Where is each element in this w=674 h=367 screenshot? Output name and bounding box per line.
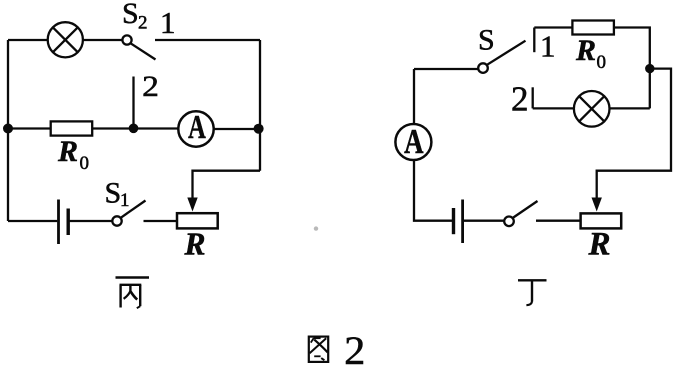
wire: right vertical of circuit 丙	[259, 40, 261, 171]
wire: junction to outer right vertical and down to rheostat arrow	[597, 69, 671, 200]
lamp (bulb) of circuit 丁	[574, 91, 610, 127]
switch S2 pivot	[122, 35, 131, 44]
wire: middle wire left part	[8, 127, 51, 129]
svg-text:2: 2	[511, 80, 529, 119]
wire: battery to switch S1	[70, 220, 113, 222]
svg-text:R: R	[588, 227, 611, 263]
switch of circuit 丁 pivot	[504, 217, 514, 227]
svg-text:S: S	[478, 24, 495, 57]
caption 图 (drawn strokes)	[309, 337, 328, 362]
wire: resistor to ammeter	[92, 127, 178, 129]
svg-text:R: R	[575, 34, 596, 67]
wire: lamp to switch S2 pivot	[83, 39, 123, 41]
wire: contact 1 of S2	[155, 39, 260, 41]
svg-text:A: A	[404, 122, 424, 161]
arrowhead of rheostat 丙	[187, 198, 197, 212]
battery of circuit 丁: short plate	[452, 208, 455, 234]
switch of circuit 丁 blade	[513, 201, 538, 218]
wire: ammeter to right vertical	[214, 128, 260, 130]
node: right junction dot circuit 丙	[254, 124, 264, 134]
svg-text:1: 1	[540, 29, 556, 64]
speck artifact	[314, 226, 318, 230]
wire: contact 2 branch of S2	[132, 77, 134, 129]
arrowhead of rheostat 丁	[592, 198, 602, 212]
wire: step down to rheostat arrow	[193, 171, 261, 200]
wire: contact 2 tick	[532, 87, 534, 108]
battery of circuit 丙: long plate	[57, 200, 60, 245]
wire: resistor R0 to right vertical	[614, 28, 650, 109]
svg-text:2: 2	[142, 70, 159, 103]
label 丁 (caption of right circuit), drawn strokes	[518, 280, 547, 305]
battery of circuit 丙: short plate	[66, 209, 69, 236]
wire: lamp to right vertical	[610, 107, 650, 109]
svg-text:1: 1	[120, 190, 130, 211]
svg-text:R: R	[57, 135, 78, 168]
wire: contact 2 to lamp	[533, 107, 574, 109]
wire: contact 1 to resistor R0	[534, 26, 572, 28]
svg-text:R: R	[184, 227, 206, 262]
svg-text:A: A	[188, 109, 206, 146]
rheostat R of circuit 丙	[177, 213, 218, 228]
battery of circuit 丁: long plate	[461, 200, 464, 244]
node: left junction dot	[3, 124, 13, 134]
node: junction dot circuit 丁	[645, 64, 654, 73]
svg-text:0: 0	[597, 52, 607, 73]
node: branch-2 junction dot	[129, 124, 139, 134]
wire: battery to switch pivot	[464, 220, 504, 222]
resistor R0 of circuit 丁	[572, 21, 614, 35]
svg-text:2: 2	[344, 328, 365, 367]
svg-text:S: S	[122, 0, 139, 30]
wire: top-left segment to lamp	[8, 39, 48, 41]
label 丙 (caption of left circuit), drawn strokes	[116, 278, 150, 309]
svg-text:2: 2	[138, 13, 148, 34]
wire: S1 contact to rheostat	[144, 220, 178, 222]
wire: contact 1 tick	[533, 28, 535, 53]
wire: switch contact to rheostat	[536, 220, 581, 222]
switch S1 pivot	[112, 216, 121, 225]
wire: ammeter bottom to battery	[414, 160, 452, 221]
ammeter A of circuit 丁	[395, 124, 431, 160]
switch S2 blade	[131, 43, 156, 59]
switch S pivot	[478, 63, 488, 73]
wire: bottom left segment to battery	[8, 220, 57, 222]
svg-text:1: 1	[160, 5, 176, 40]
switch S blade	[487, 41, 526, 65]
svg-text:0: 0	[80, 153, 90, 174]
switch S1 blade	[121, 201, 146, 218]
ammeter A of circuit 丙	[178, 111, 213, 146]
wire: circuit 丁 top horizontal from ammeter to switch S	[414, 68, 478, 70]
wire: circuit 丁 vertical to ammeter top	[413, 69, 415, 124]
wire: left vertical of circuit 丙	[7, 40, 9, 221]
rheostat R of circuit 丁	[581, 213, 622, 228]
lamp (bulb) top of circuit 丙	[48, 22, 83, 57]
resistor R0 of circuit 丙	[51, 121, 92, 135]
svg-text:S: S	[105, 177, 122, 210]
